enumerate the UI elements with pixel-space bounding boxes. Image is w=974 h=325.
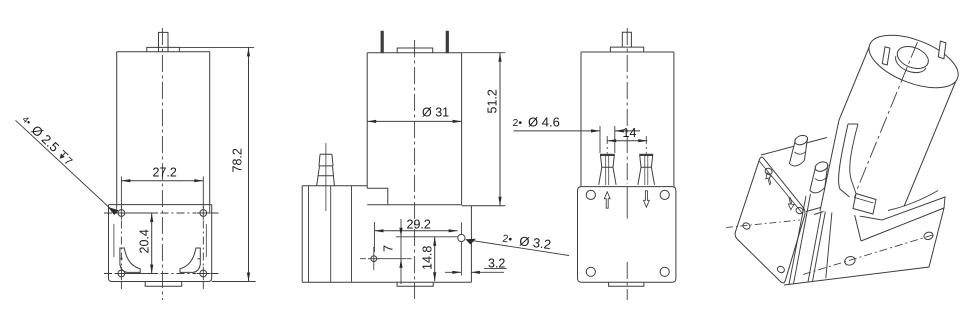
bottom tab: [145, 282, 182, 287]
svg-text:Ø 2.5: Ø 2.5: [29, 122, 63, 155]
motor centerline: [414, 40, 416, 299]
svg-text:20.4: 20.4: [138, 229, 152, 253]
plate hole TL: [764, 167, 773, 175]
brush tab left: [882, 47, 890, 65]
svg-text:2•: 2•: [513, 117, 523, 129]
dimension dia4.6 with label 2x dia4.6: [513, 115, 641, 154]
plate hole TR: [795, 206, 804, 214]
bracket top edge: [848, 123, 858, 125]
corner hole TR: [660, 190, 669, 199]
hole left: [360, 247, 412, 271]
dimension 14.8: [421, 237, 437, 281]
screw top-right: [197, 206, 211, 220]
cylinder right side: [904, 80, 957, 207]
plate flow arrow 1: [766, 173, 772, 185]
pump head top strip edge: [761, 138, 827, 156]
SE face hole near: [844, 255, 857, 266]
outlet nozzle left: [600, 154, 615, 156]
dimension 3.2: [445, 257, 507, 274]
dimension 29.2: [375, 218, 458, 253]
nozzle 2 (far): [810, 160, 829, 193]
svg-text:2•: 2•: [502, 233, 513, 246]
bracket foot: [853, 194, 876, 215]
cylinder body white fill: [820, 39, 957, 216]
svg-text:14: 14: [623, 126, 637, 140]
svg-text:3.2: 3.2: [488, 257, 505, 271]
motor edge stubs into block: [117, 205, 210, 213]
svg-text:Ø 4.6: Ø 4.6: [528, 115, 560, 130]
pump step: [367, 186, 388, 205]
pump head seams: [789, 189, 833, 284]
base join line: [814, 201, 857, 215]
motor bracket: [839, 124, 876, 214]
corner cutout right: [180, 248, 200, 272]
centerline: [626, 28, 628, 300]
dimension 78.2: [179, 47, 255, 281]
motor cylinder: [820, 25, 965, 216]
svg-text:78.2: 78.2: [231, 148, 245, 172]
corner hole BL: [586, 267, 595, 276]
svg-text:51.2: 51.2: [486, 89, 500, 113]
hole right: [396, 223, 465, 276]
motor shaft: [622, 32, 631, 47]
brush tab right: [938, 41, 946, 59]
saddle arc under cylinder: [888, 191, 938, 211]
motor body: [581, 52, 674, 187]
leader 2x dia3.2: [465, 231, 569, 255]
cylinder axis centerline: [856, 42, 918, 192]
svg-text:Ø 31: Ø 31: [422, 106, 449, 120]
svg-text:29.2: 29.2: [407, 218, 431, 232]
screw bottom-right: [197, 267, 211, 281]
corner hole BR: [660, 267, 669, 276]
corner hole TL: [586, 190, 595, 199]
screw row centerlines: [104, 213, 219, 274]
dimension 51.2: [462, 53, 506, 206]
motor shaft: [159, 32, 169, 51]
nozzle 1 (near): [789, 134, 809, 166]
SE face hole far: [923, 231, 934, 241]
housing seams: [309, 186, 352, 282]
dimension 7: [378, 219, 406, 284]
plate top inner edge: [759, 161, 803, 214]
nozzle centerlines: [607, 136, 646, 154]
svg-text:Ø 3.2: Ø 3.2: [518, 233, 551, 252]
dimension dia31: [367, 106, 461, 124]
flow arrow down (inlet): [644, 191, 650, 208]
cylinder top ellipse: [862, 25, 965, 99]
bracket arm left edge: [839, 124, 850, 197]
motor body: [117, 52, 210, 205]
shaft collar: [610, 47, 643, 52]
terminal cap: [397, 48, 433, 53]
svg-text:27.2: 27.2: [153, 166, 177, 180]
svg-text:7: 7: [382, 245, 396, 252]
svg-text:4•: 4•: [20, 114, 33, 127]
front plate: [735, 157, 805, 283]
screw top-left: [115, 206, 129, 220]
plate hole BR: [776, 265, 785, 273]
bracket foot inner edge: [855, 194, 874, 204]
plate centerline dashes: [726, 220, 800, 228]
inlet nozzle: [317, 143, 335, 211]
plate flow arrow 2: [788, 198, 794, 210]
pump housing body: [302, 186, 505, 282]
corner cutout left: [120, 248, 140, 272]
pump housing top: [302, 185, 367, 187]
screw bottom-left: [115, 267, 129, 281]
shaft collar: [147, 47, 180, 51]
dimension 20.4: [126, 213, 158, 274]
SE face centerline dashes: [803, 234, 936, 275]
bracket arm fill: [839, 124, 858, 197]
svg-text:14.8: 14.8: [421, 246, 435, 270]
cylinder left side: [820, 45, 870, 211]
pump block: [109, 205, 212, 282]
block inner wall lines: [114, 224, 206, 257]
dimension 14: [607, 126, 647, 142]
screw column centerlines: [121, 221, 203, 292]
motor body side: [367, 53, 461, 205]
port plate: [578, 187, 676, 283]
plate hole BL: [742, 222, 751, 230]
dimension 27.2: [121, 166, 203, 209]
flow arrow up (outlet): [604, 192, 610, 209]
leader 4x dia2.5 depth7: [16, 113, 119, 215]
base SE face outline: [784, 198, 944, 286]
shaft boss: [894, 42, 931, 72]
bottom tab: [397, 282, 433, 286]
bottom tab: [609, 282, 644, 286]
terminal pins: [381, 31, 449, 53]
base top face far edge: [860, 197, 946, 220]
bracket arm right edge: [850, 124, 858, 194]
inlet nozzle right: [639, 154, 653, 156]
centerline vertical: [161, 28, 163, 300]
